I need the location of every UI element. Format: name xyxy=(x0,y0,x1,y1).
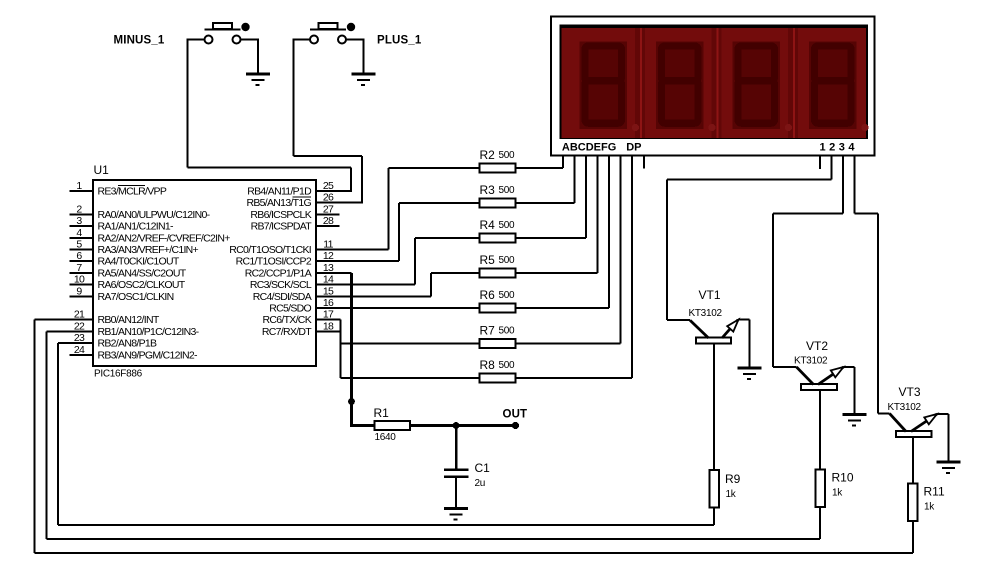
svg-text:RC5/SDO: RC5/SDO xyxy=(269,303,311,315)
svg-text:27: 27 xyxy=(323,203,334,215)
svg-text:R7: R7 xyxy=(480,324,496,338)
wire U1 pin 16 to R6 xyxy=(340,307,480,309)
svg-text:1k: 1k xyxy=(726,489,737,500)
wire MINUS_1 right terminal to ground xyxy=(241,39,260,75)
svg-text:2: 2 xyxy=(76,203,82,215)
svg-text:RA4/T0CKI/C1OUT: RA4/T0CKI/C1OUT xyxy=(98,256,180,268)
svg-text:17: 17 xyxy=(323,309,334,321)
capacitor C1 2u xyxy=(444,427,469,508)
svg-text:7: 7 xyxy=(76,262,82,274)
svg-text:26: 26 xyxy=(323,192,334,204)
ground (PLUS_1) xyxy=(351,73,375,86)
wire display pin B to R3 xyxy=(516,156,576,205)
label R3 500 xyxy=(480,183,516,197)
pin 26 RB5/AN13/T1G (right) xyxy=(246,192,339,210)
pin 13 RC2/CCP1/P1A (right) xyxy=(245,262,340,280)
wire display pin G to R8 xyxy=(516,156,634,380)
resistor R9 1k xyxy=(709,470,719,508)
svg-text:R8: R8 xyxy=(480,358,496,372)
svg-text:KT3102: KT3102 xyxy=(794,356,828,367)
svg-text:9: 9 xyxy=(76,285,82,297)
pin 21 RB0/AN12/INT (left) xyxy=(70,309,160,327)
svg-text:R5: R5 xyxy=(480,253,496,267)
pushbutton MINUS_1 xyxy=(205,23,250,44)
label display digit pins 1234 xyxy=(819,142,855,154)
resistor R8 500 xyxy=(480,374,516,383)
wire PLUS_1 left terminal to U1 pin 26 xyxy=(293,39,364,204)
svg-text:24: 24 xyxy=(74,344,85,356)
label R2 500 xyxy=(480,148,516,162)
svg-text:R6: R6 xyxy=(480,288,496,302)
wire display pin C to R4 xyxy=(516,156,587,240)
wire U1 pin 23 to R9 bottom xyxy=(57,342,714,526)
pin 22 RB1/AN10/P1C/C12IN3- (left) xyxy=(70,320,200,338)
svg-text:500: 500 xyxy=(499,360,516,371)
label VT2 KT3102 xyxy=(794,339,828,367)
wire U1 pin 17 to R7 xyxy=(339,319,479,378)
wire MINUS_1 left terminal to U1 pin 25 xyxy=(187,39,353,193)
wire display pin D to R5 xyxy=(516,156,599,275)
overline T1G xyxy=(293,196,312,197)
svg-text:500: 500 xyxy=(499,290,516,301)
svg-text:R9: R9 xyxy=(725,472,741,486)
svg-text:R1: R1 xyxy=(374,406,390,420)
display digit pin 1 stub xyxy=(819,156,821,170)
svg-text:DP: DP xyxy=(626,142,641,154)
ground (VT3) xyxy=(936,461,960,474)
svg-text:RB3/AN9/PGM/C12IN2-: RB3/AN9/PGM/C12IN2- xyxy=(98,349,199,361)
junction dot at C1 branch xyxy=(453,422,460,429)
label R5 500 xyxy=(480,253,516,267)
label display segment pins ABCDEFG DP xyxy=(562,142,642,154)
pin 1 RE3/MCLR/VPP (left) xyxy=(70,180,167,198)
pin 25 RB4/AN11/P1D (right) xyxy=(247,180,339,198)
svg-text:PIC16F886: PIC16F886 xyxy=(94,369,143,380)
IC U1 PIC16F886 body xyxy=(93,180,316,366)
svg-text:3: 3 xyxy=(76,215,82,227)
wire VT2 base to R10 xyxy=(819,390,821,470)
svg-text:18: 18 xyxy=(323,320,334,332)
svg-text:OUT: OUT xyxy=(503,409,528,421)
svg-text:22: 22 xyxy=(74,320,85,332)
label R10 1k xyxy=(832,471,854,499)
svg-text:RC3/SCK/SCL: RC3/SCK/SCL xyxy=(250,279,312,291)
label R4 500 xyxy=(480,218,516,232)
svg-text:RC1/T1OSI/CCP2: RC1/T1OSI/CCP2 xyxy=(236,256,312,268)
svg-text:5: 5 xyxy=(76,239,82,251)
wire VT2 emitter to ground xyxy=(844,366,856,414)
svg-text:2u: 2u xyxy=(475,478,486,489)
svg-text:11: 11 xyxy=(323,239,333,251)
pin 12 RC1/T1OSI/CCP2 (right) xyxy=(236,250,340,268)
ground (VT1) xyxy=(737,367,761,380)
svg-text:4: 4 xyxy=(76,227,82,239)
pin 24 RB3/AN9/PGM/C12IN2- (left) xyxy=(70,344,199,362)
svg-text:500: 500 xyxy=(499,185,516,196)
svg-text:1k: 1k xyxy=(832,488,843,499)
svg-text:VT2: VT2 xyxy=(806,339,828,353)
label R6 500 xyxy=(480,288,516,302)
svg-text:RC2/CCP1/P1A: RC2/CCP1/P1A xyxy=(245,267,312,279)
ground (MINUS_1) xyxy=(246,73,270,86)
pin 7 RA5/AN4/SS/C2OUT (left) xyxy=(70,262,187,280)
svg-text:KT3102: KT3102 xyxy=(689,308,723,319)
label C1 2u xyxy=(475,461,491,489)
svg-text:RC7/RX/DT: RC7/RX/DT xyxy=(262,326,312,338)
svg-text:RA7/OSC1/CLKIN: RA7/OSC1/CLKIN xyxy=(98,291,174,303)
label R1 1640 xyxy=(374,406,397,443)
svg-text:500: 500 xyxy=(499,220,516,231)
svg-text:500: 500 xyxy=(499,255,516,266)
svg-text:14: 14 xyxy=(323,274,334,286)
svg-text:R3: R3 xyxy=(480,183,496,197)
pin 14 RC3/SCK/SCL (right) xyxy=(250,274,340,292)
label R11 1k xyxy=(924,485,945,513)
resistor R6 500 xyxy=(480,304,516,313)
svg-text:U1: U1 xyxy=(94,163,110,177)
svg-text:RA3/AN3/VREF+/C1IN+: RA3/AN3/VREF+/C1IN+ xyxy=(98,244,199,256)
svg-text:RA2/AN2/VREF-/CVREF/C2IN+: RA2/AN2/VREF-/CVREF/C2IN+ xyxy=(98,232,231,244)
pin 11 RC0/T1OSO/T1CKI (right) xyxy=(229,239,339,257)
pin 27 RB6/ICSPCLK (right) xyxy=(250,203,339,221)
svg-text:21: 21 xyxy=(74,309,85,321)
svg-text:25: 25 xyxy=(323,180,334,192)
svg-text:RB0/AN12/INT: RB0/AN12/INT xyxy=(98,314,160,326)
overline MCLR xyxy=(118,185,145,186)
svg-text:15: 15 xyxy=(323,285,334,297)
svg-text:1640: 1640 xyxy=(375,432,397,443)
pin 18 RC7/RX/DT (right) xyxy=(262,320,340,338)
wire U1 pin 11 to R2 xyxy=(340,167,480,251)
wire display digit pin 3 to VT2 collector xyxy=(772,156,844,369)
pin 2 RA0/AN0/ULPWU/C12IN0- (left) xyxy=(70,203,211,221)
svg-text:VT3: VT3 xyxy=(899,385,921,399)
pin 23 RB2/AN8/P1B (left) xyxy=(70,332,158,350)
svg-text:23: 23 xyxy=(74,332,85,344)
svg-text:4: 4 xyxy=(848,142,855,154)
transistor VT3 KT3102 xyxy=(890,414,938,438)
svg-text:10: 10 xyxy=(74,274,85,286)
wire display pin A to R2 xyxy=(516,156,565,170)
svg-text:RE3/MCLR/VPP: RE3/MCLR/VPP xyxy=(98,186,167,198)
wire VT3 base to R11 xyxy=(912,437,914,484)
wire R9 to bottom rail xyxy=(713,508,715,526)
wire VT1 emitter to ground xyxy=(738,319,751,368)
label VT3 KT3102 xyxy=(888,385,922,413)
svg-text:RB6/ICSPCLK: RB6/ICSPCLK xyxy=(250,209,311,221)
wire R1 to OUT node xyxy=(410,424,516,427)
wire U1 pin 18 to R8 xyxy=(340,330,480,379)
pin 10 RA6/OSC2/CLKOUT (left) xyxy=(70,274,186,292)
ground (C1) xyxy=(444,507,468,520)
svg-text:RA0/AN0/ULPWU/C12IN0-: RA0/AN0/ULPWU/C12IN0- xyxy=(98,209,211,221)
wire display digit pin 2 to VT1 collector xyxy=(666,156,833,322)
wire display pin E to R6 xyxy=(516,156,610,310)
wire R11 to bottom rail xyxy=(912,521,914,553)
pin 16 RC5/SDO (right) xyxy=(269,297,339,315)
wire U1 pin 15 to R5 xyxy=(340,272,480,297)
svg-text:1k: 1k xyxy=(924,502,935,513)
svg-text:500: 500 xyxy=(499,150,516,161)
display pin DP stub xyxy=(643,156,645,169)
svg-text:12: 12 xyxy=(323,250,334,262)
pin 5 RA3/AN3/VREF+/C1IN+ (left) xyxy=(70,239,199,257)
pushbutton PLUS_1 xyxy=(310,23,355,44)
wire U1 pin 14 to R4 xyxy=(340,237,480,286)
svg-text:6: 6 xyxy=(76,250,82,262)
svg-text:RA6/OSC2/CLKOUT: RA6/OSC2/CLKOUT xyxy=(98,279,186,291)
svg-text:2: 2 xyxy=(829,142,835,154)
pin 15 RC4/SDI/SDA (right) xyxy=(253,285,340,303)
svg-text:RB1/AN10/P1C/C12IN3-: RB1/AN10/P1C/C12IN3- xyxy=(98,326,200,338)
resistor R11 1k xyxy=(908,484,918,522)
svg-text:16: 16 xyxy=(323,297,334,309)
svg-text:R10: R10 xyxy=(832,471,854,485)
svg-text:PLUS_1: PLUS_1 xyxy=(377,35,422,47)
junction dot on R1 feed xyxy=(348,398,355,405)
wire U1 pin 22 to R10 bottom xyxy=(45,330,820,540)
wire U1 pin 21 to R11 bottom xyxy=(34,319,913,554)
resistor R2 500 xyxy=(480,164,516,173)
wire VT3 emitter to ground xyxy=(937,413,950,462)
resistor R5 500 xyxy=(480,269,516,278)
svg-text:13: 13 xyxy=(323,262,334,274)
transistor VT2 KT3102 xyxy=(797,367,844,390)
label VT1 KT3102 xyxy=(689,288,723,319)
resistor R4 500 xyxy=(480,234,516,243)
wire U1 pin 13 to R1 (bold net) xyxy=(340,272,375,427)
svg-text:3: 3 xyxy=(839,142,845,154)
4-digit seven-segment display xyxy=(551,17,875,156)
resistor R1 1640 xyxy=(375,421,411,430)
svg-text:RB2/AN8/P1B: RB2/AN8/P1B xyxy=(98,338,158,350)
pin 6 RA4/T0CKI/C1OUT (left) xyxy=(70,250,180,268)
resistor R7 500 xyxy=(480,339,516,348)
label R8 500 xyxy=(480,358,516,372)
ground (VT2) xyxy=(842,413,866,426)
svg-text:RB5/AN13/T1G: RB5/AN13/T1G xyxy=(246,197,311,209)
svg-text:RA5/AN4/SS/C2OUT: RA5/AN4/SS/C2OUT xyxy=(98,267,187,279)
svg-text:RC6/TX/CK: RC6/TX/CK xyxy=(262,314,311,326)
svg-text:28: 28 xyxy=(323,215,334,227)
wire VT1 base to R9 xyxy=(713,344,715,471)
pin 28 RB7/ICSPDAT (right) xyxy=(251,215,340,233)
svg-text:1: 1 xyxy=(76,180,82,192)
svg-text:C1: C1 xyxy=(475,461,491,475)
svg-text:ABCDEFG: ABCDEFG xyxy=(562,142,616,154)
pin 3 RA1/AN1/C12IN1- (left) xyxy=(70,215,174,233)
svg-text:VT1: VT1 xyxy=(699,288,721,302)
svg-text:R2: R2 xyxy=(480,148,496,162)
pin 4 RA2/AN2/VREF-/CVREF/C2IN+ (left) xyxy=(70,227,231,245)
svg-text:R11: R11 xyxy=(924,485,945,499)
svg-text:RB4/AN11/P1D: RB4/AN11/P1D xyxy=(247,186,312,198)
svg-text:RA1/AN1/C12IN1-: RA1/AN1/C12IN1- xyxy=(98,221,174,233)
svg-text:MINUS_1: MINUS_1 xyxy=(114,35,165,47)
wire PLUS_1 right terminal to ground xyxy=(346,39,365,75)
svg-text:500: 500 xyxy=(499,326,516,337)
pin 17 RC6/TX/CK (right) xyxy=(262,309,339,327)
svg-text:KT3102: KT3102 xyxy=(888,402,922,413)
svg-text:R4: R4 xyxy=(480,218,496,232)
svg-text:1: 1 xyxy=(819,142,825,154)
svg-text:RB7/ICSPDAT: RB7/ICSPDAT xyxy=(251,221,313,233)
wire U1 pin 12 to R3 xyxy=(340,202,480,262)
wire display digit pin 4 to VT3 collector xyxy=(854,156,890,415)
pin 9 RA7/OSC1/CLKIN (left) xyxy=(70,285,174,303)
label R7 500 xyxy=(480,324,516,338)
transistor VT1 KT3102 xyxy=(690,320,739,344)
node OUT xyxy=(503,409,528,430)
resistor R3 500 xyxy=(480,199,516,208)
label R9 1k xyxy=(725,472,741,500)
resistor R10 1k xyxy=(815,470,825,508)
wire R10 to bottom rail xyxy=(819,507,821,539)
svg-text:RC0/T1OSO/T1CKI: RC0/T1OSO/T1CKI xyxy=(229,244,311,256)
svg-text:RC4/SDI/SDA: RC4/SDI/SDA xyxy=(253,291,312,303)
wire display pin F to R7 xyxy=(516,156,622,345)
